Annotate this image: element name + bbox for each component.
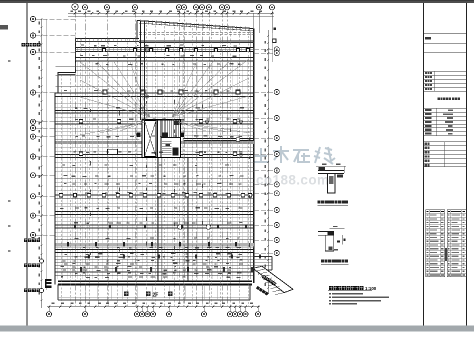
left dimension line xyxy=(41,19,43,308)
beam band E xyxy=(56,211,254,213)
bottom grid bubbles xyxy=(46,312,51,317)
small node circles xyxy=(146,95,149,98)
ramp label 2 xyxy=(256,286,269,296)
bottom dimension line xyxy=(47,306,260,308)
upper-right band xyxy=(139,40,254,42)
column squares xyxy=(59,49,252,197)
sheet right frame line xyxy=(466,3,468,326)
title block attr rows xyxy=(424,107,467,109)
label 地下室顶板 xyxy=(22,43,25,46)
beam band B xyxy=(76,56,254,58)
left elevation label 3 xyxy=(24,289,28,293)
sheet name blob xyxy=(438,98,440,100)
right grid bubbles xyxy=(274,47,279,52)
interior slab lines xyxy=(56,67,254,273)
left edge mark xyxy=(0,25,8,30)
stair treads lower (horizontal) xyxy=(162,142,172,155)
sheet left frame line xyxy=(26,3,28,326)
left elevation label 2 xyxy=(24,264,28,268)
detail 2 caption xyxy=(321,260,324,263)
bottom wall double band xyxy=(58,280,252,282)
svg-text:2F: 2F xyxy=(153,292,159,298)
slab slope fan lines xyxy=(80,59,250,135)
watermark 土木在线 (vector strokes) xyxy=(253,146,335,164)
beam band D right of core xyxy=(184,137,254,139)
title block project rows xyxy=(424,70,467,72)
dark row 249-252 xyxy=(56,250,254,253)
stair treads upper (vertical) xyxy=(163,121,178,137)
extra fine slab lines xyxy=(56,104,254,248)
faint intermediate verticals xyxy=(57,62,247,279)
drawing title xyxy=(329,286,333,290)
beam band top-left xyxy=(76,38,140,40)
list table middle label xyxy=(445,248,447,261)
top-right edge band xyxy=(139,32,254,34)
beam band F xyxy=(56,238,254,240)
core wall verticals down xyxy=(157,158,159,282)
right lower protrusion xyxy=(254,256,272,258)
building outline xyxy=(55,39,76,285)
lower stair dark cell xyxy=(173,147,179,155)
stair/elevator core xyxy=(142,120,181,158)
building right edge xyxy=(253,29,255,284)
car ramp xyxy=(253,266,293,292)
list table half 1 xyxy=(426,210,445,277)
elevator shaft X brace xyxy=(145,121,157,157)
bottom protrusion wing xyxy=(58,299,250,301)
top grid bubbles xyxy=(72,4,78,10)
core side piers xyxy=(137,132,141,137)
left small terminator circles xyxy=(39,259,43,263)
beam band A xyxy=(76,47,254,49)
step edge line xyxy=(58,74,76,76)
scan bottom gray bar xyxy=(0,326,474,332)
medium beam rows xyxy=(56,93,254,228)
roof diagonal edge xyxy=(137,21,253,29)
title block signature rows xyxy=(424,141,467,143)
upper shaft wall pair xyxy=(140,21,142,120)
diagonal hatch ticks xyxy=(140,20,249,32)
beam band C mid xyxy=(56,109,254,111)
left elevation label 1 xyxy=(24,239,28,243)
core wall channel xyxy=(157,120,159,158)
detail section 1 xyxy=(318,171,344,194)
right top square markers xyxy=(273,27,276,30)
left grid bubbles xyxy=(30,16,35,21)
right dimension line xyxy=(268,30,270,294)
interior column grid verticals xyxy=(61,21,248,306)
top dimension line xyxy=(68,12,274,14)
rebar tick blobs xyxy=(67,242,69,247)
room label row xyxy=(124,292,129,297)
node circles row 227 xyxy=(178,225,183,230)
top grid axes xyxy=(75,10,227,306)
notes lines xyxy=(329,293,331,295)
detail section 2 xyxy=(318,232,334,251)
ramp label 1 xyxy=(262,275,276,286)
gray shaded beam band xyxy=(56,141,254,144)
roof edge left vertical xyxy=(136,21,138,39)
scan top dark bar xyxy=(0,0,474,3)
title block top section xyxy=(424,32,467,34)
annotation text specks xyxy=(81,44,84,45)
detail 1 caption xyxy=(318,200,321,203)
stair landing dark blob xyxy=(162,133,168,137)
title block left border xyxy=(423,3,425,326)
left E mark xyxy=(45,279,52,288)
list table half 2 xyxy=(447,210,466,277)
